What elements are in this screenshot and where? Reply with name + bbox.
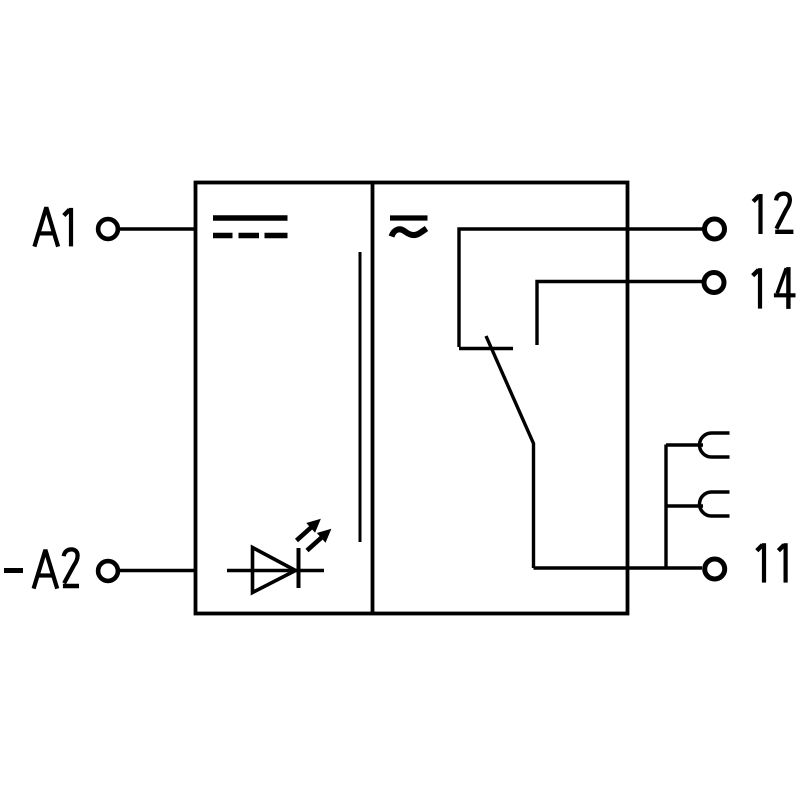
DC supply symbol <box>213 218 288 236</box>
wire to terminal 12 (NC contact branch) <box>459 229 703 349</box>
relay contact arm <box>486 336 534 568</box>
wire to terminal 11 (common) <box>534 566 703 569</box>
wire A2 to box <box>120 569 196 572</box>
spare contact branch wire <box>664 445 667 569</box>
wire A1 to box <box>120 227 196 230</box>
unused connector lower <box>666 492 730 516</box>
terminal 14 <box>704 273 724 293</box>
label 14 <box>753 267 796 309</box>
enclosure box U1 <box>196 183 628 614</box>
label A2 <box>34 549 79 588</box>
terminal 11 <box>705 559 725 579</box>
compartment divider <box>371 183 375 614</box>
unused connector upper <box>666 433 730 457</box>
terminal A2 <box>98 561 118 581</box>
label 11 <box>757 543 786 582</box>
label A1 <box>34 207 71 246</box>
isolation barrier <box>359 252 362 542</box>
LED D1 <box>227 548 324 593</box>
label -A2 minus sign <box>4 568 23 573</box>
terminal 12 <box>705 219 725 239</box>
wire to terminal 14 (NO contact branch) <box>537 282 702 346</box>
LED emission arrows <box>297 520 331 551</box>
terminal A1 <box>98 219 118 239</box>
AC symbol <box>390 218 428 237</box>
label 12 <box>753 194 793 234</box>
